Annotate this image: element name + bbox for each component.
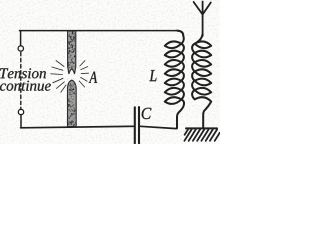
inductor antenna coupling coil [192,34,211,128]
arc spark rays [51,61,89,93]
arc lamp A lower electrode (carbon) [67,80,76,126]
label L (inductor) [149,70,156,81]
wire left vertical from top bus [20,31,22,46]
terminal lower (DC supply) [18,109,23,114]
label Tension continue [0,68,51,91]
wire bottom bus right segment [140,126,176,128]
label A (arc) [89,72,97,83]
antenna [194,2,211,37]
wire lower left vertical to bottom bus [20,115,22,128]
capacitor C left plate [134,107,136,143]
ground (earth) [184,128,219,140]
arc lamp A upper electrode (carbon) [68,31,76,74]
terminal upper (DC supply) [18,46,23,51]
wire bottom bus left segment [21,126,134,128]
wire top bus [20,30,178,32]
inductor L (tank coil) [165,31,184,129]
wire dashed DC feed [20,52,22,108]
label C (capacitor) [142,108,152,119]
capacitor C right plate [138,107,140,143]
